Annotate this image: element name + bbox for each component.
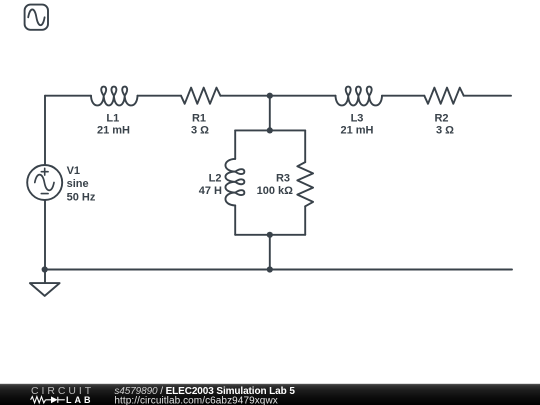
footer logo resistor-diode icon (31, 397, 65, 403)
box right edge lower (304, 206, 306, 235)
node A junction dot (267, 93, 273, 99)
wire node A to box top (269, 96, 271, 131)
svg-text:sine: sine (67, 178, 89, 190)
bottom wire (45, 269, 512, 271)
svg-text:47 H: 47 H (199, 185, 222, 197)
inductor L1 (91, 87, 138, 106)
watermark sine icon (25, 5, 48, 30)
svg-text:3 Ω: 3 Ω (191, 125, 209, 137)
inductor L3 (336, 87, 383, 106)
svg-text:L3: L3 (351, 112, 364, 124)
svg-text:3 Ω: 3 Ω (436, 125, 454, 137)
voltage source V1 circle (27, 165, 62, 200)
svg-text:V1: V1 (67, 165, 80, 177)
left bottom junction dot (42, 266, 48, 272)
bottom wire junction dot (267, 266, 273, 272)
wire left vertical upper (44, 96, 46, 165)
wire top-left horizontal segment (45, 95, 91, 97)
resistor R1 (181, 88, 220, 104)
wire V1 bottom to junction (44, 200, 46, 270)
ground triangle (30, 283, 60, 296)
svg-text:50 Hz: 50 Hz (67, 191, 96, 203)
wire L3 to R2 (382, 95, 424, 97)
svg-text:L1: L1 (106, 112, 119, 124)
box top edge (235, 129, 305, 131)
box bottom junction dot (267, 232, 273, 238)
footer bar (0, 384, 540, 405)
svg-text:http://circuitlab.com/c6abz947: http://circuitlab.com/c6abz9479xqwx (114, 395, 277, 405)
resistor R2 (424, 88, 463, 104)
svg-text:21 mH: 21 mH (340, 125, 373, 137)
box right edge upper (304, 130, 306, 162)
box bottom edge (235, 234, 305, 236)
svg-text:L2: L2 (209, 173, 222, 185)
wire R2 to right end (464, 95, 511, 97)
box top junction dot (267, 127, 273, 133)
svg-text:21 mH: 21 mH (97, 125, 130, 137)
svg-text:R2: R2 (434, 112, 448, 124)
svg-text:LAB: LAB (66, 395, 94, 405)
svg-text:R3: R3 (276, 173, 290, 185)
wire R1 to L3 through node A (220, 95, 335, 97)
wire box bottom to bottom wire (269, 235, 271, 270)
inductor L2 (225, 159, 244, 206)
resistor R3 (297, 162, 313, 206)
svg-text:R1: R1 (192, 112, 206, 124)
ground stem (44, 270, 46, 284)
wire L1 to R1 (138, 95, 182, 97)
box left edge upper (234, 130, 236, 159)
svg-text:100 kΩ: 100 kΩ (257, 185, 294, 197)
box left edge lower (234, 205, 236, 234)
